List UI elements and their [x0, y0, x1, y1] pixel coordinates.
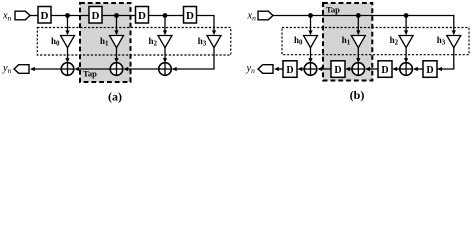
- delay D2 bottom (b): [331, 61, 345, 78]
- drop h0 to adder1 (b): [310, 48, 312, 61]
- wire adder1 to D1 (b): [299, 68, 304, 70]
- svg-text:h2: h2: [148, 36, 157, 48]
- wire adder2 to D2 (b): [347, 68, 352, 70]
- top wire (b) with corner down to h3: [273, 16, 454, 32]
- multiplier h1 (b): [351, 36, 365, 48]
- wire D3 to adder2 (b): [367, 68, 378, 70]
- wire D2 to adder1 (b): [319, 68, 331, 70]
- adder 1 (a): [61, 63, 74, 76]
- output port (a): [14, 65, 29, 74]
- wire D1 to output port (b): [276, 68, 283, 70]
- multiplier h3 (a): [207, 36, 221, 48]
- svg-text:Tap: Tap: [83, 68, 97, 78]
- drop node2 to h1 (b): [357, 16, 359, 34]
- drop h1 to adder2: [116, 48, 118, 61]
- svg-text:D: D: [286, 65, 293, 76]
- adder 2 (a): [110, 63, 123, 76]
- svg-text:h3: h3: [198, 36, 207, 48]
- multiplier h2 (a): [158, 36, 172, 48]
- wire D4 to corner down to h3: [197, 16, 215, 32]
- node dot 1 (a): [65, 13, 70, 18]
- multiplier h1 (a): [110, 36, 124, 48]
- coefficient dotted box (b): [282, 28, 469, 55]
- svg-text:yn: yn: [246, 63, 256, 75]
- wire adder1 to output port: [32, 68, 61, 70]
- input port (a): [15, 11, 30, 20]
- node dot 3 (a): [163, 13, 168, 18]
- delay D1 bottom (b): [283, 61, 297, 78]
- node dot 2 (b): [356, 13, 361, 18]
- svg-text:h2: h2: [390, 35, 399, 47]
- wire adder2 to adder1: [76, 68, 110, 70]
- wire input to D1: [30, 15, 38, 17]
- wire adder3 to adder2: [125, 68, 158, 70]
- svg-text:h0: h0: [294, 35, 303, 47]
- multiplier h0 (b): [304, 36, 318, 48]
- delay D1 (a): [38, 7, 51, 24]
- multiplier h2 (b): [399, 36, 413, 48]
- wire D2 to D3: [102, 15, 136, 17]
- delay D4 (a): [184, 7, 197, 24]
- svg-text:h3: h3: [437, 35, 446, 47]
- svg-text:D: D: [381, 65, 388, 76]
- drop node3 to h2 (b): [405, 16, 407, 34]
- wire D1 to D2: [51, 15, 89, 17]
- wire adder3 to D3 (b): [394, 68, 400, 70]
- drop node1 to h0 (b): [310, 16, 312, 34]
- delay D3 bottom (b): [378, 61, 392, 78]
- tap region box (b): [323, 3, 372, 81]
- svg-text:D: D: [138, 10, 146, 22]
- svg-text:D: D: [426, 65, 433, 76]
- svg-text:D: D: [92, 10, 100, 22]
- drop h2 to adder3: [164, 48, 166, 61]
- svg-text:xn: xn: [2, 11, 12, 23]
- drop h0 to adder1: [67, 48, 69, 61]
- drop h1 to adder2 (b): [357, 48, 359, 61]
- drop node1 to h0: [67, 16, 69, 34]
- multiplier h0 (a): [61, 36, 75, 48]
- drop node3 to h2: [164, 16, 166, 34]
- svg-text:D: D: [334, 65, 341, 76]
- wire h3 down and left to adder3: [173, 48, 215, 69]
- node dot 2 (a): [114, 13, 119, 18]
- svg-text:h0: h0: [51, 36, 60, 48]
- wire D4 to adder3 (b): [415, 68, 423, 70]
- svg-text:xn: xn: [247, 11, 257, 23]
- drop node2 to h1: [116, 16, 118, 34]
- coefficient dotted box (a): [37, 28, 231, 56]
- delay D3 (a): [136, 7, 149, 24]
- delay D4 bottom (b): [423, 61, 437, 78]
- output port (b): [258, 65, 273, 74]
- adder 3 (b): [400, 63, 413, 76]
- wire D3 to D4: [149, 15, 184, 17]
- svg-text:(b): (b): [350, 88, 365, 102]
- input port (b): [258, 11, 273, 20]
- svg-text:yn: yn: [2, 63, 12, 75]
- svg-text:D: D: [41, 10, 49, 22]
- tap region box (a): [80, 3, 131, 82]
- adder 1 (b): [304, 63, 317, 76]
- drop h2 to adder3 (b): [405, 48, 407, 61]
- delay D2 (a): [89, 7, 102, 24]
- adder 3 (a): [159, 63, 172, 76]
- svg-text:Tap: Tap: [326, 5, 340, 15]
- svg-text:(a): (a): [108, 90, 122, 104]
- adder 2 (b): [352, 63, 365, 76]
- node dot 1 (b): [308, 13, 313, 18]
- svg-text:D: D: [186, 10, 194, 22]
- wire h3 down and left to D4 (b): [437, 48, 454, 69]
- node dot 3 (b): [404, 13, 409, 18]
- multiplier h3 (b): [447, 36, 461, 48]
